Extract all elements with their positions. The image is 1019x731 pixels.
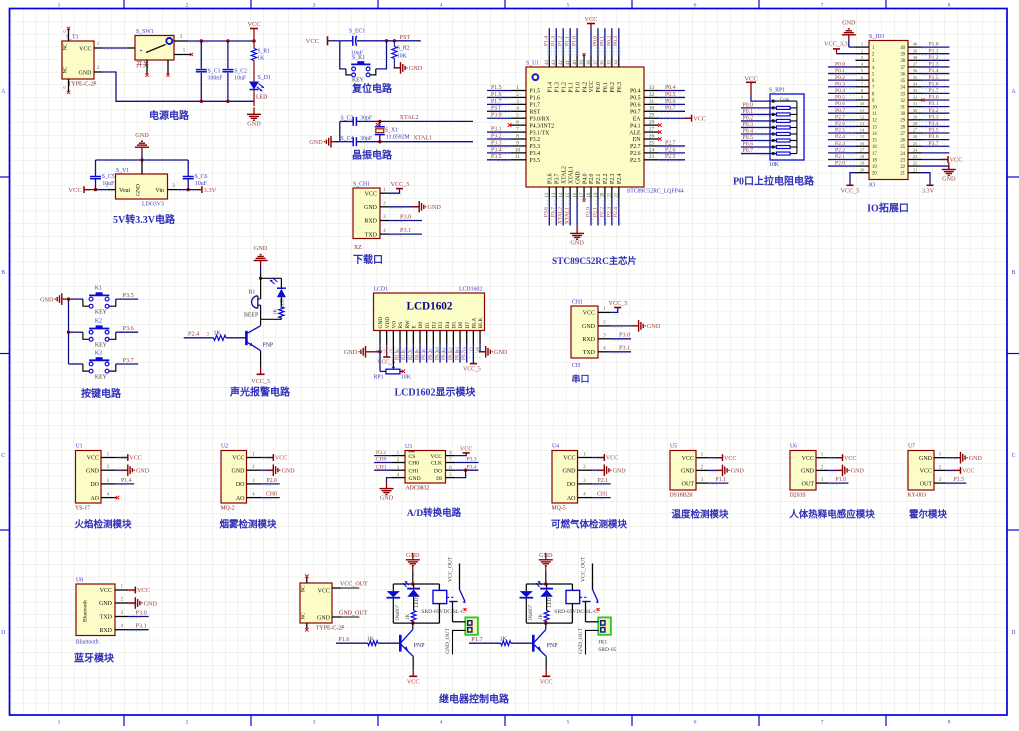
svg-text:P1.2: P1.2 — [561, 82, 567, 93]
svg-text:GND_OUT: GND_OUT — [339, 611, 368, 617]
power port VCC reset — [306, 36, 340, 45]
alarm bottom rail — [261, 318, 282, 320]
push button K1 — [83, 285, 116, 315]
svg-text:S_C1: S_C1 — [208, 68, 221, 74]
svg-text:P1.7: P1.7 — [491, 99, 502, 105]
svg-text:8: 8 — [516, 133, 519, 139]
svg-text:GND: GND — [344, 349, 358, 356]
svg-text:6: 6 — [516, 120, 519, 126]
svg-text:P2.2: P2.2 — [599, 207, 605, 217]
svg-text:VCC: VCC — [100, 588, 112, 594]
svg-text:1K: 1K — [500, 636, 508, 642]
svg-text:S_R2: S_R2 — [397, 46, 410, 52]
svg-text:K1: K1 — [95, 285, 102, 291]
svg-text:P3.0/RX: P3.0/RX — [530, 116, 551, 122]
svg-text:P0.2: P0.2 — [743, 115, 754, 121]
svg-text:P3.7: P3.7 — [554, 173, 560, 184]
svg-text:P1.4: P1.4 — [929, 68, 939, 74]
svg-text:VCC_OUT: VCC_OUT — [581, 556, 587, 582]
svg-text:P0.3: P0.3 — [743, 122, 754, 128]
svg-text:CH0: CH0 — [409, 461, 420, 467]
svg-text:P1.2: P1.2 — [558, 36, 564, 46]
LCD ground left — [344, 345, 382, 372]
svg-text:VCC: VCC — [589, 80, 595, 92]
svg-text:GND: GND — [613, 469, 627, 475]
JD1 right wires P1.x P3.x — [921, 42, 949, 153]
svg-text:P2.4: P2.4 — [617, 173, 623, 184]
svg-text:2: 2 — [382, 349, 387, 351]
svg-text:D3: D3 — [438, 322, 444, 329]
svg-text:18: 18 — [860, 154, 865, 159]
svg-text:26: 26 — [913, 134, 918, 139]
wire OUT U6 — [828, 477, 848, 483]
svg-text:38: 38 — [587, 60, 592, 65]
svg-text:40: 40 — [900, 46, 905, 51]
svg-text:GND: GND — [380, 495, 394, 502]
svg-text:P2.6: P2.6 — [401, 350, 407, 360]
power port VCC_3.3 JD1 — [824, 41, 856, 54]
ground U4 — [593, 464, 626, 476]
svg-text:19: 19 — [872, 165, 877, 170]
svg-text:烟雾检测模块: 烟雾检测模块 — [219, 519, 277, 531]
svg-text:P0.7: P0.7 — [743, 148, 754, 154]
module U7 KY-003 — [908, 444, 958, 499]
svg-text:1K: 1K — [539, 614, 544, 621]
svg-text:7: 7 — [821, 720, 824, 726]
svg-text:1: 1 — [516, 85, 519, 91]
svg-text:S_X1: S_X1 — [385, 127, 398, 133]
svg-text:S_CH1: S_CH1 — [353, 182, 370, 188]
svg-text:36: 36 — [900, 72, 905, 77]
regulator S_V1 LDO3V3 — [98, 160, 196, 208]
svg-text:XTAL1: XTAL1 — [565, 207, 571, 224]
svg-text:P2.7: P2.7 — [408, 350, 414, 360]
svg-text:P0.4: P0.4 — [743, 128, 754, 134]
svg-text:OUT: OUT — [682, 481, 695, 487]
svg-text:DS18B20: DS18B20 — [670, 493, 693, 499]
power VCC relay P1.7 — [540, 676, 553, 685]
U1 top wires and net labels — [544, 16, 621, 57]
svg-text:P2.3: P2.3 — [606, 207, 612, 217]
svg-text:ALE: ALE — [629, 130, 641, 136]
svg-text:39: 39 — [913, 48, 918, 53]
svg-text:P3.6: P3.6 — [123, 325, 134, 332]
wire P3.7 — [116, 357, 138, 364]
svg-text:P0.7: P0.7 — [461, 350, 467, 360]
svg-text:CH0: CH0 — [376, 457, 387, 463]
svg-text:23: 23 — [900, 158, 905, 163]
wire P3.5 — [116, 292, 138, 299]
wire P3.1 bluetooth — [128, 623, 149, 630]
U3 DI wire — [455, 470, 465, 477]
svg-text:3: 3 — [388, 349, 393, 351]
svg-text:11: 11 — [860, 108, 865, 113]
svg-text:P2.7: P2.7 — [835, 114, 845, 120]
svg-text:BLA: BLA — [471, 318, 477, 329]
svg-text:GND: GND — [282, 469, 296, 475]
svg-text:GND: GND — [247, 120, 261, 127]
svg-text:10K: 10K — [769, 162, 780, 168]
U1 right wires and net labels — [658, 85, 706, 161]
svg-text:DO: DO — [90, 482, 99, 488]
svg-text:TXD: TXD — [100, 615, 113, 621]
svg-text:P0.6: P0.6 — [665, 99, 676, 105]
svg-text:CH1: CH1 — [572, 300, 583, 306]
svg-text:D6: D6 — [458, 322, 464, 329]
svg-text:VCC: VCC — [744, 75, 757, 82]
ground U5 — [708, 465, 744, 477]
svg-text:25: 25 — [649, 140, 655, 146]
svg-text:21: 21 — [913, 167, 918, 172]
svg-text:8: 8 — [948, 2, 951, 8]
svg-text:IO拓展口: IO拓展口 — [867, 202, 909, 215]
resistor 1K led P1.7 — [539, 611, 549, 624]
svg-text:13: 13 — [872, 125, 877, 130]
svg-text:3: 3 — [313, 2, 316, 8]
svg-text:100nF: 100nF — [208, 75, 224, 81]
svg-text:7: 7 — [516, 126, 519, 132]
svg-text:LCD1: LCD1 — [374, 287, 389, 293]
svg-text:OUT: OUT — [802, 481, 815, 487]
svg-text:17: 17 — [860, 147, 865, 152]
svg-text:P0.5: P0.5 — [743, 135, 754, 141]
svg-text:39: 39 — [580, 60, 585, 65]
svg-text:NC: NC — [302, 585, 307, 593]
svg-text:DO: DO — [236, 482, 245, 488]
svg-text:P3.2: P3.2 — [491, 133, 502, 139]
ground U2 — [262, 464, 295, 476]
svg-text:P1.4: P1.4 — [544, 36, 550, 46]
svg-text:P0.4: P0.4 — [630, 89, 641, 95]
svg-text:11: 11 — [515, 154, 520, 160]
svg-text:P1.4: P1.4 — [548, 82, 554, 93]
svg-text:P2.1: P2.1 — [596, 173, 602, 184]
svg-text:19: 19 — [594, 192, 599, 197]
svg-text:P3.1: P3.1 — [929, 101, 939, 107]
svg-text:25: 25 — [913, 141, 918, 146]
svg-text:VCC: VCC — [87, 456, 99, 462]
svg-text:27: 27 — [900, 132, 905, 137]
wire DO U2 — [262, 478, 280, 484]
power port VCC_5 alarm — [251, 374, 270, 385]
wire T1-GND to bottom rail — [102, 72, 254, 101]
connector S_JD1 40pin — [869, 34, 908, 189]
svg-text:VCC: VCC — [563, 456, 575, 462]
svg-text:U4: U4 — [552, 444, 559, 450]
svg-text:VCC: VCC — [129, 456, 141, 462]
svg-text:P2.1: P2.1 — [598, 478, 609, 484]
svg-text:CH0: CH0 — [266, 492, 277, 498]
resistor 1K alarm — [274, 297, 285, 319]
svg-text:P2.4: P2.4 — [188, 331, 199, 338]
svg-text:VCC: VCC — [682, 456, 694, 462]
svg-text:40: 40 — [573, 60, 578, 65]
svg-text:30pF: 30pF — [360, 115, 373, 121]
svg-text:P2.5: P2.5 — [835, 128, 845, 134]
wire AO U4 — [593, 492, 611, 498]
svg-text:VCC: VCC — [585, 16, 598, 23]
svg-text:P3.7: P3.7 — [123, 357, 134, 364]
svg-text:17: 17 — [580, 192, 585, 197]
svg-text:P0.2: P0.2 — [835, 75, 845, 81]
svg-text:CH1: CH1 — [597, 492, 608, 498]
wire VCC_OUT — [340, 582, 368, 589]
svg-text:蓝牙模块: 蓝牙模块 — [74, 652, 115, 665]
svg-text:LCD1602: LCD1602 — [459, 287, 482, 293]
svg-text:28: 28 — [913, 121, 918, 126]
ground U1 — [116, 464, 149, 476]
svg-text:VCC: VCC — [724, 456, 736, 462]
svg-text:S_D1: S_D1 — [258, 75, 271, 81]
svg-text:P2.3: P2.3 — [610, 173, 616, 184]
svg-text:VCC: VCC — [232, 456, 244, 462]
svg-text:35: 35 — [913, 75, 918, 80]
svg-text:P0.5: P0.5 — [665, 92, 676, 98]
svg-text:AO: AO — [567, 496, 576, 502]
power VCC U5 — [708, 454, 736, 462]
svg-text:27: 27 — [913, 128, 918, 133]
no-ERC marks on S_SW1 — [145, 53, 193, 77]
svg-text:P1.2: P1.2 — [929, 55, 939, 61]
ground bluetooth — [128, 597, 157, 609]
svg-text:VCC: VCC — [844, 456, 856, 462]
svg-text:44: 44 — [545, 60, 550, 65]
U1 bottom wires and net labels — [544, 199, 621, 247]
svg-text:P4.3/INT2: P4.3/INT2 — [530, 123, 555, 129]
svg-text:P0.5: P0.5 — [448, 350, 454, 360]
svg-text:S_C6: S_C6 — [195, 174, 208, 180]
svg-text:P0.3: P0.3 — [617, 82, 623, 93]
relay contact P1.6 — [421, 556, 466, 622]
svg-text:P0.6: P0.6 — [743, 141, 754, 147]
power port VCC_5 download — [389, 181, 409, 193]
svg-text:NC: NC — [302, 612, 307, 620]
ground alarm — [254, 245, 268, 278]
wire P3.0 bluetooth — [128, 609, 149, 616]
svg-text:10: 10 — [515, 147, 521, 153]
power VCC U6 — [828, 454, 856, 462]
svg-text:RXD: RXD — [582, 337, 595, 343]
svg-text:P0.7: P0.7 — [835, 108, 845, 114]
svg-text:P1.0: P1.0 — [836, 477, 847, 483]
svg-text:22: 22 — [913, 161, 918, 166]
svg-text:S_JD1: S_JD1 — [869, 34, 885, 40]
svg-text:P2.6: P2.6 — [630, 151, 641, 157]
U1 left wires and net labels — [487, 85, 511, 161]
svg-text:P0.0: P0.0 — [743, 102, 754, 108]
svg-text:EA: EA — [633, 116, 642, 122]
svg-text:KEY: KEY — [352, 78, 365, 84]
svg-text:P3.0: P3.0 — [400, 213, 411, 220]
wire OUT U7 — [946, 477, 966, 483]
svg-text:P1.3: P1.3 — [551, 36, 557, 46]
U3 DO wire P3.4 — [455, 464, 478, 472]
ground for LDO circuit — [135, 132, 149, 160]
svg-text:GND: GND — [86, 468, 100, 474]
svg-text:VCC_OUT: VCC_OUT — [340, 582, 368, 588]
svg-text:13: 13 — [860, 121, 865, 126]
LED alarm branch — [270, 278, 286, 308]
svg-text:D4: D4 — [445, 322, 451, 329]
svg-text:P2.1: P2.1 — [592, 207, 598, 217]
svg-text:P1.7: P1.7 — [530, 103, 541, 109]
svg-text:D: D — [1011, 630, 1015, 636]
U1 right pins 33-23 — [629, 85, 658, 164]
svg-text:P3.0: P3.0 — [491, 113, 502, 119]
svg-text:GND: GND — [919, 456, 933, 462]
svg-text:温度检测模块: 温度检测模块 — [671, 509, 729, 521]
capacitor S_C2 10uF — [222, 41, 247, 103]
svg-text:GND: GND — [99, 601, 113, 607]
relay output connector P1.6 — [445, 617, 478, 654]
svg-text:29: 29 — [900, 119, 905, 124]
svg-text:P3.5: P3.5 — [530, 158, 541, 164]
svg-text:S_U1: S_U1 — [526, 61, 539, 67]
U1 top pins 44-34 — [545, 55, 623, 92]
svg-text:11.0592M: 11.0592M — [386, 134, 410, 140]
switch S_SW1 — [127, 29, 191, 74]
svg-text:PNP: PNP — [547, 643, 558, 649]
svg-text:16: 16 — [860, 141, 865, 146]
svg-text:P4.0: P4.0 — [582, 173, 588, 184]
svg-text:VCC: VCC — [540, 678, 553, 685]
svg-text:D0: D0 — [418, 322, 424, 329]
svg-text:VO: VO — [391, 321, 397, 329]
svg-text:AO: AO — [236, 496, 245, 502]
svg-text:B1: B1 — [249, 290, 256, 296]
connector CH1 serial — [571, 300, 625, 370]
JD1 left pins 1-20 — [856, 42, 878, 177]
svg-text:15: 15 — [872, 139, 877, 144]
svg-text:1K: 1K — [406, 614, 411, 621]
svg-text:21: 21 — [608, 192, 613, 197]
svg-text:VCC: VCC — [430, 454, 442, 460]
svg-text:VCC: VCC — [365, 191, 377, 197]
svg-text:23: 23 — [913, 154, 918, 159]
svg-text:RW: RW — [405, 319, 411, 328]
relay bottom rail P1.6 — [393, 621, 439, 624]
svg-text:43: 43 — [552, 60, 557, 65]
svg-text:KEY: KEY — [95, 375, 108, 381]
svg-text:34: 34 — [900, 86, 905, 91]
svg-text:14: 14 — [872, 132, 877, 137]
svg-text:GND: GND — [681, 469, 695, 475]
push button K2 — [83, 319, 116, 349]
svg-text:P3.1: P3.1 — [136, 623, 147, 630]
svg-text:42: 42 — [559, 60, 564, 65]
svg-text:P0.3: P0.3 — [835, 81, 845, 87]
svg-text:P3.1: P3.1 — [619, 345, 630, 352]
power port 3.3V right — [177, 186, 216, 194]
svg-text:按键电路: 按键电路 — [81, 387, 122, 400]
svg-text:U5: U5 — [670, 444, 677, 450]
svg-text:20: 20 — [872, 172, 877, 177]
svg-text:S_C2: S_C2 — [234, 68, 247, 74]
svg-text:KEY: KEY — [95, 343, 108, 349]
svg-text:VCC: VCC — [318, 588, 330, 594]
svg-text:37: 37 — [913, 62, 918, 67]
svg-text:下载口: 下载口 — [353, 253, 383, 266]
svg-text:PNP: PNP — [414, 643, 425, 649]
svg-text:声光报警电路: 声光报警电路 — [229, 386, 291, 399]
svg-text:P0.1: P0.1 — [603, 82, 609, 93]
svg-text:6: 6 — [694, 720, 697, 726]
svg-text:P0.4: P0.4 — [835, 88, 845, 94]
alarm top rail — [259, 277, 282, 280]
svg-text:VCC: VCC — [802, 456, 814, 462]
wire AO U1 — [116, 496, 120, 500]
svg-text:C: C — [1012, 453, 1016, 459]
svg-text:VCC: VCC — [962, 469, 974, 475]
wire crystal left leg — [339, 121, 341, 141]
svg-text:14: 14 — [559, 192, 564, 197]
svg-text:U6: U6 — [790, 444, 797, 450]
svg-text:SRD-05VDC-SL-C: SRD-05VDC-SL-C — [554, 609, 598, 615]
svg-text:5: 5 — [567, 720, 570, 726]
svg-text:35: 35 — [608, 60, 613, 65]
svg-text:D5: D5 — [451, 322, 457, 329]
svg-text:D: D — [1, 630, 5, 636]
U3 CLK wire P3.3 — [455, 457, 478, 463]
svg-text:GND: GND — [801, 469, 815, 475]
svg-text:1: 1 — [58, 720, 61, 726]
base resistor 1K P1.6 — [336, 636, 400, 646]
LCD ground right — [479, 345, 508, 358]
svg-text:DO: DO — [567, 482, 576, 488]
svg-text:GND: GND — [842, 20, 856, 27]
svg-text:C: C — [1, 453, 5, 459]
svg-text:CLK: CLK — [431, 461, 442, 467]
svg-text:P0.2: P0.2 — [428, 350, 434, 360]
resistor S_R1 1K — [251, 49, 270, 82]
svg-text:P1.5: P1.5 — [954, 477, 965, 483]
svg-text:10K: 10K — [397, 54, 408, 60]
svg-text:S_SW1: S_SW1 — [136, 29, 154, 35]
svg-text:P3.6: P3.6 — [544, 207, 550, 217]
wire P3.1 serial — [611, 345, 631, 352]
svg-text:22: 22 — [900, 165, 905, 170]
wire P3.6 — [116, 325, 138, 332]
svg-text:21: 21 — [900, 172, 905, 177]
svg-text:AO: AO — [90, 496, 99, 502]
svg-text:P2.2: P2.2 — [603, 173, 609, 184]
svg-text:16: 16 — [573, 192, 578, 197]
svg-text:晶振电路: 晶振电路 — [352, 149, 393, 162]
svg-text:VCC: VCC — [693, 115, 706, 122]
svg-text:P2.7: P2.7 — [630, 144, 641, 150]
svg-text:P1.1: P1.1 — [568, 82, 574, 93]
ground for power circuit — [253, 107, 255, 114]
svg-text:YS-17: YS-17 — [75, 506, 90, 512]
svg-text:P1.1: P1.1 — [716, 477, 727, 483]
svg-text:U3: U3 — [405, 444, 412, 450]
svg-text:1N4007: 1N4007 — [529, 604, 534, 621]
svg-text:S_R1: S_R1 — [257, 49, 270, 55]
capacitor S_C1 100nF — [196, 41, 223, 103]
svg-text:PST: PST — [400, 34, 411, 41]
svg-text:CH1: CH1 — [376, 464, 387, 470]
svg-text:P3.7: P3.7 — [929, 141, 939, 147]
ground JD1 pin22 — [922, 163, 957, 183]
capacitor S_C6 10uF — [183, 160, 208, 191]
svg-text:10uF: 10uF — [234, 75, 247, 81]
svg-text:GND: GND — [575, 171, 581, 184]
wire DO U1 — [116, 478, 134, 484]
svg-text:1K: 1K — [257, 56, 265, 62]
svg-text:30: 30 — [913, 108, 918, 113]
LCD BLA power VCC_5 — [463, 345, 481, 373]
power port VCC_5 serial — [609, 300, 628, 312]
